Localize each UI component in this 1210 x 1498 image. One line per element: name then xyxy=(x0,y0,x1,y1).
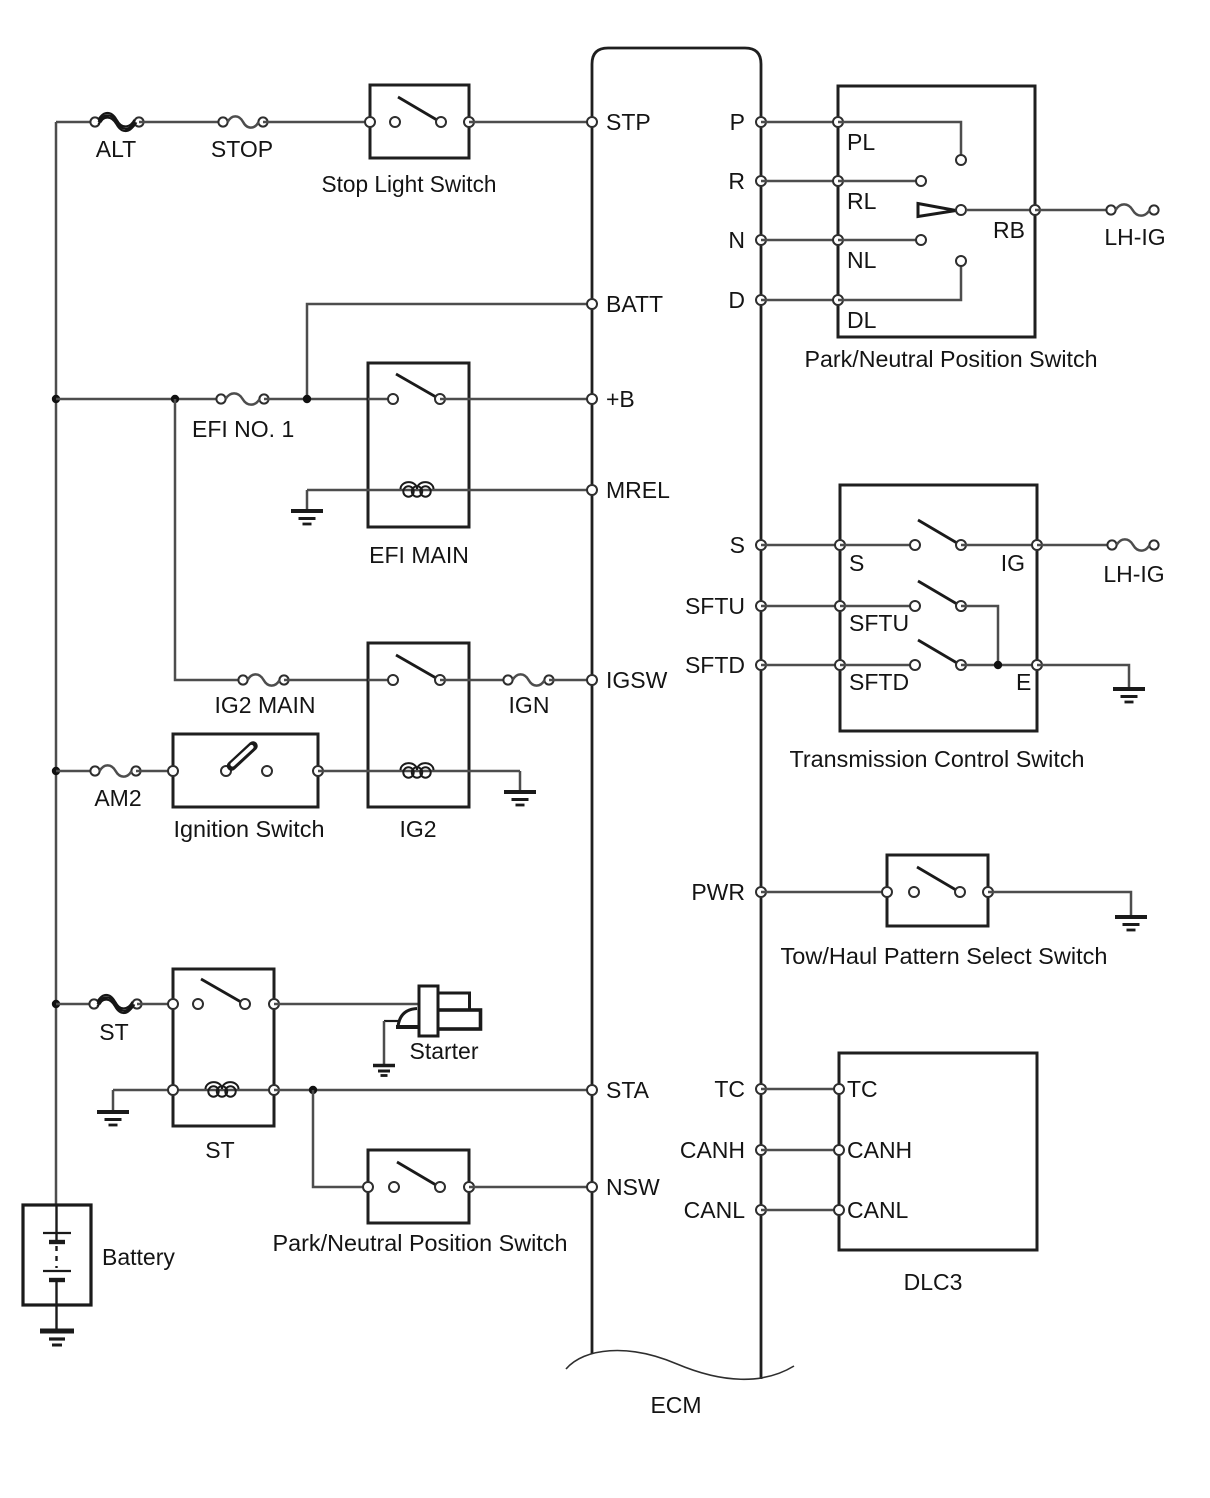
terminal CANL ecm xyxy=(756,1205,766,1215)
wire pnp R to contact xyxy=(838,180,916,183)
wire ALT to STOP xyxy=(139,121,223,124)
wire RB to LH-IG fuse xyxy=(1035,209,1111,212)
terminal pnp D xyxy=(833,295,843,305)
wire junction to park neutral switch xyxy=(313,1090,368,1187)
wire tcs S to IG xyxy=(961,544,1037,547)
svg-text:S: S xyxy=(849,550,864,576)
wire pnp bottom to NSW xyxy=(469,1186,592,1189)
terminal tow haul right xyxy=(983,887,993,897)
wire tcs SFTD row xyxy=(840,664,915,667)
svg-text:Park/Neutral Position Switch: Park/Neutral Position Switch xyxy=(805,346,1098,372)
contact ST switch left xyxy=(193,999,203,1009)
wire EFI MAIN switch left xyxy=(368,398,393,401)
coil IG2 xyxy=(401,763,434,778)
blade tow haul switch xyxy=(917,867,956,890)
wire SFTU to tcs xyxy=(761,605,840,608)
svg-text:IGN: IGN xyxy=(509,692,550,718)
fuse EFI NO. 1 xyxy=(216,393,268,404)
contact tcs S right xyxy=(956,540,966,550)
svg-text:Ignition Switch: Ignition Switch xyxy=(174,816,325,842)
wire starter ground stem xyxy=(383,1021,386,1064)
wire pnp N to contact xyxy=(838,239,916,242)
svg-text:D: D xyxy=(728,287,745,313)
transmission control switch box xyxy=(840,485,1037,731)
svg-text:BATT: BATT xyxy=(606,291,663,317)
terminal R xyxy=(756,176,766,186)
svg-text:CANL: CANL xyxy=(684,1197,746,1223)
contact pnp D xyxy=(956,256,966,266)
wire junction to IG2 MAIN fuse xyxy=(175,399,243,680)
wiper pnp rotor xyxy=(918,204,956,217)
svg-text:DL: DL xyxy=(847,307,877,333)
terminal CANH ecm xyxy=(756,1145,766,1155)
wire ST coil to ground xyxy=(113,1089,274,1092)
svg-text:Transmission Control Switch: Transmission Control Switch xyxy=(790,746,1085,772)
svg-text:CANL: CANL xyxy=(847,1197,909,1223)
terminal TC ecm xyxy=(756,1084,766,1094)
fuse LH-IG mid xyxy=(1107,539,1158,550)
fuse IGN xyxy=(503,674,553,685)
terminal ST relay left xyxy=(168,999,178,1009)
ground IG2 coil xyxy=(504,792,536,805)
contact tow haul right xyxy=(955,887,965,897)
wire STOP to Stop Light Switch xyxy=(263,121,370,124)
ground EFI MAIN coil xyxy=(291,511,323,524)
svg-text:ALT: ALT xyxy=(96,136,136,162)
svg-text:STP: STP xyxy=(606,109,651,135)
wire IG2 MAIN fuse to IG2 relay xyxy=(284,679,368,682)
wire IG2 switch to IGN fuse xyxy=(440,679,508,682)
contact tcs SFTU right xyxy=(956,601,966,611)
terminal dlc3 TC xyxy=(834,1084,844,1094)
contact pnp N xyxy=(916,235,926,245)
coil EFI MAIN xyxy=(401,482,434,497)
wire EFI NO.1 to EFI MAIN relay xyxy=(264,398,368,401)
ground ST coil xyxy=(97,1112,129,1125)
ground tcs E xyxy=(1113,689,1145,702)
svg-text:LH-IG: LH-IG xyxy=(1103,561,1164,587)
blade tcs S switch xyxy=(918,520,957,543)
wire IG to LH-IG fuse xyxy=(1037,544,1112,547)
svg-text:ST: ST xyxy=(205,1137,234,1163)
svg-text:IG2: IG2 xyxy=(399,816,436,842)
terminal tcs S xyxy=(835,540,845,550)
svg-text:SFTU: SFTU xyxy=(685,593,745,619)
blade pnp bottom switch xyxy=(397,1162,436,1185)
svg-text:SFTD: SFTD xyxy=(849,669,909,695)
contact tcs S left xyxy=(910,540,920,550)
terminal pnp N xyxy=(833,235,843,245)
svg-text:NL: NL xyxy=(847,247,877,273)
svg-text:EFI MAIN: EFI MAIN xyxy=(369,542,469,568)
blade tcs SFTU switch xyxy=(918,581,957,604)
coil ST xyxy=(206,1082,239,1097)
wire pnp D to contact xyxy=(838,266,961,300)
terminal ignition switch right xyxy=(313,766,323,776)
terminal SFTD xyxy=(756,660,766,670)
wire R to pnp switch xyxy=(761,180,838,183)
svg-text:N: N xyxy=(728,227,745,253)
wire N to pnp switch xyxy=(761,239,838,242)
svg-text:LH-IG: LH-IG xyxy=(1104,224,1165,250)
svg-text:MREL: MREL xyxy=(606,477,670,503)
svg-text:S: S xyxy=(730,532,745,558)
wire PWR to tow haul switch xyxy=(761,891,887,894)
contact pnp P xyxy=(956,155,966,165)
wire P to pnp switch xyxy=(761,121,838,124)
terminal pnp bottom right xyxy=(464,1182,474,1192)
blade tcs SFTD switch xyxy=(918,640,957,663)
terminal MREL xyxy=(587,485,597,495)
terminal +B xyxy=(587,394,597,404)
contact ignition switch right xyxy=(262,766,272,776)
fuse LH-IG top xyxy=(1106,204,1158,215)
wire IG2 coil ground stem xyxy=(519,771,522,792)
junction dot rail AM2 row xyxy=(52,767,60,775)
svg-text:STOP: STOP xyxy=(211,136,273,162)
stop light switch box xyxy=(370,85,469,158)
contact IG2 switch right xyxy=(435,675,445,685)
junction dot tcs E xyxy=(994,661,1002,669)
wire D to pnp switch xyxy=(761,299,838,302)
blade ST switch xyxy=(201,979,241,1002)
svg-text:Starter: Starter xyxy=(409,1038,478,1064)
dlc3 box xyxy=(839,1053,1037,1250)
svg-text:PL: PL xyxy=(847,129,875,155)
terminal PWR xyxy=(756,887,766,897)
svg-text:TC: TC xyxy=(714,1076,745,1102)
terminal D xyxy=(756,295,766,305)
svg-text:R: R xyxy=(728,168,745,194)
terminal RB xyxy=(1030,205,1040,215)
contact stop light switch left xyxy=(390,117,400,127)
wire ignition switch to IG2 coil xyxy=(318,770,368,773)
terminal pnp R xyxy=(833,176,843,186)
svg-text:E: E xyxy=(1016,669,1031,695)
wire AM2 to ignition switch xyxy=(136,770,173,773)
wire tow haul to ground xyxy=(988,892,1131,916)
terminal S xyxy=(756,540,766,550)
battery xyxy=(23,1205,91,1331)
relay IG2 box xyxy=(368,643,469,807)
wire E to ground xyxy=(1037,665,1129,688)
relay ST box xyxy=(173,969,274,1126)
terminal ST coil right xyxy=(269,1085,279,1095)
svg-text:IGSW: IGSW xyxy=(606,667,668,693)
contact tcs SFTD left xyxy=(910,660,920,670)
svg-text:SFTU: SFTU xyxy=(849,610,909,636)
contact EFI MAIN switch right xyxy=(435,394,445,404)
wire rail to ST link xyxy=(56,1003,94,1006)
wire IG2 switch left xyxy=(368,679,393,682)
wire tcs SFTU row xyxy=(840,605,915,608)
park neutral position switch bottom box xyxy=(368,1150,469,1223)
relay EFI MAIN box xyxy=(368,363,469,527)
wire tcs SFTU to E junction xyxy=(961,606,998,665)
wire ST relay to starter xyxy=(274,1003,419,1006)
ground tow haul xyxy=(1115,917,1147,930)
wire CANL to dlc3 xyxy=(761,1209,839,1212)
wire S to tcs xyxy=(761,544,840,547)
terminal STA xyxy=(587,1085,597,1095)
ground battery xyxy=(40,1331,74,1345)
blade IG2 switch xyxy=(396,655,436,678)
wire EFI MAIN coil row to MREL xyxy=(307,489,592,492)
wire IG2 coil row xyxy=(368,770,520,773)
wire BATT to +B junction xyxy=(307,304,592,399)
svg-text:Park/Neutral Position Switch: Park/Neutral Position Switch xyxy=(273,1230,568,1256)
ECM box outline xyxy=(592,48,761,1379)
terminal P xyxy=(756,117,766,127)
svg-text:STA: STA xyxy=(606,1077,650,1103)
contact pnp R xyxy=(916,176,926,186)
svg-text:DLC3: DLC3 xyxy=(904,1269,963,1295)
terminal stop light switch right xyxy=(464,117,474,127)
contact tcs SFTU left xyxy=(910,601,920,611)
terminal tcs SFTD xyxy=(835,660,845,670)
terminal tcs SFTU xyxy=(835,601,845,611)
svg-text:Tow/Haul Pattern Select Switch: Tow/Haul Pattern Select Switch xyxy=(781,943,1108,969)
svg-text:TC: TC xyxy=(847,1076,878,1102)
fuse STOP xyxy=(218,116,267,127)
terminal SFTU xyxy=(756,601,766,611)
junction dot rail ST row xyxy=(52,1000,60,1008)
ignition switch box xyxy=(173,734,318,807)
svg-text:NSW: NSW xyxy=(606,1174,660,1200)
terminal N xyxy=(756,235,766,245)
terminal dlc3 CANH xyxy=(834,1145,844,1155)
wire IGN fuse to IGSW xyxy=(549,679,592,682)
svg-text:EFI NO. 1: EFI NO. 1 xyxy=(192,416,294,442)
wire EFI MAIN coil ground stem xyxy=(306,490,309,511)
svg-text:Battery: Battery xyxy=(102,1244,175,1270)
junction dot IG2 MAIN branch xyxy=(171,395,179,403)
contact tow haul left xyxy=(909,887,919,897)
contact tcs SFTD right xyxy=(956,660,966,670)
wire pnp P to contact xyxy=(838,122,961,155)
svg-text:CANH: CANH xyxy=(847,1137,912,1163)
wire tcs S row xyxy=(840,544,915,547)
terminal ST coil left xyxy=(168,1085,178,1095)
terminal stop light switch left xyxy=(365,117,375,127)
lever ignition switch xyxy=(232,746,254,766)
junction dot STA NSW branch xyxy=(309,1086,317,1094)
contact pnp bottom left xyxy=(389,1182,399,1192)
terminal STP xyxy=(587,117,597,127)
svg-text:RB: RB xyxy=(993,217,1025,243)
terminal ignition switch left xyxy=(168,766,178,776)
svg-text:CANH: CANH xyxy=(680,1137,745,1163)
contact IG2 switch left xyxy=(388,675,398,685)
terminal IGSW xyxy=(587,675,597,685)
svg-text:RL: RL xyxy=(847,188,877,214)
svg-text:PWR: PWR xyxy=(691,879,745,905)
contact ST switch right xyxy=(240,999,250,1009)
wire left rail vertical xyxy=(55,122,58,1205)
terminal E xyxy=(1032,660,1042,670)
blade EFI MAIN switch xyxy=(396,374,436,397)
park neutral position switch top box xyxy=(838,86,1035,337)
wire rail to EFI NO.1 fuse xyxy=(56,398,221,401)
junction dot BATT branch xyxy=(303,395,311,403)
tow haul switch box xyxy=(887,855,988,926)
svg-text:ST: ST xyxy=(99,1019,128,1045)
svg-text:P: P xyxy=(730,109,745,135)
fuse IG2 MAIN xyxy=(238,674,288,685)
contact pnp bottom right xyxy=(435,1182,445,1192)
terminal pnp bottom left xyxy=(363,1182,373,1192)
wire wiper to RB xyxy=(966,209,1035,212)
starter motor xyxy=(384,986,481,1036)
svg-text:ECM: ECM xyxy=(650,1392,701,1418)
ground starter xyxy=(373,1066,395,1076)
junction dot rail +B row xyxy=(52,395,60,403)
svg-text:SFTD: SFTD xyxy=(685,652,745,678)
terminal BATT xyxy=(587,299,597,309)
terminal ST relay right xyxy=(269,999,279,1009)
wire ST coil row to STA xyxy=(274,1089,592,1092)
terminal IG xyxy=(1032,540,1042,550)
wire rail to AM2 fuse xyxy=(56,770,95,773)
wire ST coil ground stem xyxy=(112,1090,115,1111)
wire stop light switch to STP xyxy=(469,121,592,124)
fusible link ST xyxy=(89,995,141,1013)
fuse AM2 xyxy=(90,765,140,776)
wire battery rail to ALT xyxy=(56,121,95,124)
contact EFI MAIN switch left xyxy=(388,394,398,404)
svg-text:+B: +B xyxy=(606,386,635,412)
contact pnp wiper xyxy=(956,205,966,215)
wire CANH to dlc3 xyxy=(761,1149,839,1152)
fusible link ALT xyxy=(90,113,143,131)
wire tcs SFTD to E xyxy=(961,664,1037,667)
svg-text:AM2: AM2 xyxy=(94,785,141,811)
wire SFTD to tcs xyxy=(761,664,840,667)
svg-text:IG2 MAIN: IG2 MAIN xyxy=(215,692,316,718)
wire ST link to ST relay xyxy=(137,1003,173,1006)
wire EFI MAIN switch to +B xyxy=(440,398,592,401)
contact stop light switch right xyxy=(436,117,446,127)
wire TC to dlc3 xyxy=(761,1088,839,1091)
svg-text:IG: IG xyxy=(1001,550,1025,576)
terminal dlc3 CANL xyxy=(834,1205,844,1215)
blade stop light switch xyxy=(398,97,437,120)
svg-text:Stop Light Switch: Stop Light Switch xyxy=(322,171,497,197)
contact ignition switch left xyxy=(221,766,231,776)
terminal pnp P xyxy=(833,117,843,127)
terminal tow haul left xyxy=(882,887,892,897)
terminal NSW xyxy=(587,1182,597,1192)
